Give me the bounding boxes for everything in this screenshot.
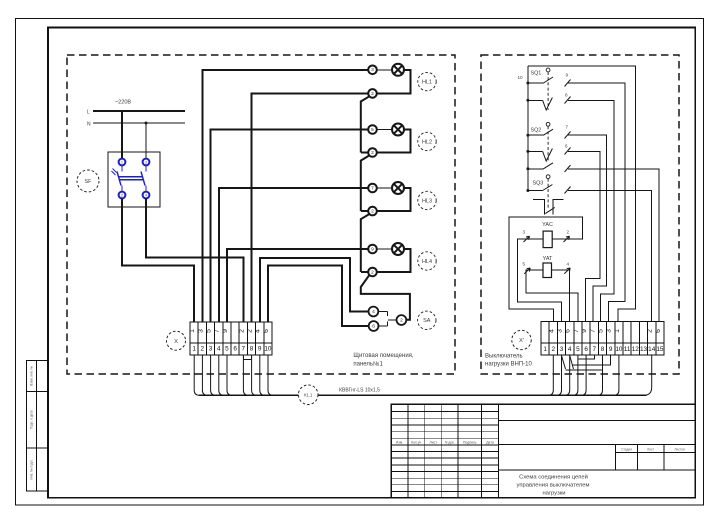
svg-text:Листов: Листов xyxy=(674,447,685,451)
connector node 9 (HL4 feed) xyxy=(368,245,377,254)
contact SQ1.1 xyxy=(528,77,571,87)
connector node 2 (SA common) xyxy=(397,315,407,325)
svg-text:7: 7 xyxy=(589,329,596,333)
contact SQ1.2 xyxy=(528,97,571,111)
svg-text:7: 7 xyxy=(593,346,597,353)
svg-text:Инв. № подл.: Инв. № подл. xyxy=(29,459,33,479)
terminal strip X wire numbers (rotated) xyxy=(189,329,270,333)
svg-text:N док.: N док. xyxy=(445,440,455,444)
contact SQ3.2 xyxy=(528,185,571,194)
wire cable core right 3 xyxy=(565,355,570,395)
drawing title text xyxy=(516,473,589,496)
coil YAT body xyxy=(543,263,552,278)
node bus SQ3.2 xyxy=(526,189,529,192)
svg-text:5: 5 xyxy=(598,329,605,333)
jumper X2:8-X2:3 xyxy=(565,355,602,370)
plug arrow YAC pin3 xyxy=(524,236,530,242)
node N junction xyxy=(145,122,148,125)
wire cable core right 7 xyxy=(614,355,619,395)
svg-text:13: 13 xyxy=(640,346,648,353)
svg-text:SQ3: SQ3 xyxy=(533,181,544,187)
wire N chain below HL4 xyxy=(361,275,410,320)
wire SQ2.2 to X2:6 xyxy=(568,151,600,321)
svg-text:SQ2: SQ2 xyxy=(531,127,542,133)
wire lamp HL3 down link xyxy=(377,188,411,211)
label: Щитовая помещения панель№1 xyxy=(353,353,414,368)
svg-text:9: 9 xyxy=(222,329,229,333)
svg-text:6: 6 xyxy=(263,329,270,333)
wire 2: YAC to X2:2 xyxy=(509,217,583,321)
svg-text:HL1: HL1 xyxy=(422,79,432,85)
svg-text:YAT: YAT xyxy=(543,256,553,262)
stage/sheet columns xyxy=(615,444,695,470)
wire cable core left 8 xyxy=(260,355,265,395)
designator circle X xyxy=(167,331,186,350)
svg-text:11: 11 xyxy=(624,346,631,353)
svg-text:Подп. и дата: Подп. и дата xyxy=(29,410,33,429)
svg-text:3: 3 xyxy=(523,230,526,235)
svg-text:2: 2 xyxy=(371,269,374,275)
wire 5: X:3 to HL2 xyxy=(211,130,369,323)
svg-text:14: 14 xyxy=(648,346,656,353)
wire 3: YAC to X2:3 xyxy=(517,239,561,322)
wire lamp HL4 down link xyxy=(377,249,411,272)
svg-text:4: 4 xyxy=(217,346,221,353)
title block left grid rows xyxy=(391,412,498,492)
svg-text:9: 9 xyxy=(609,346,613,353)
connector node 2 (HL4 return) xyxy=(368,268,377,277)
svg-text:5: 5 xyxy=(225,346,229,353)
connector node 5 (HL2 feed) xyxy=(368,125,377,134)
terminal strip X terminal numbers xyxy=(192,346,272,353)
wire connector to lamp HL4 xyxy=(377,248,392,250)
svg-text:6: 6 xyxy=(372,324,375,330)
wire cable core left 1 xyxy=(194,355,199,395)
designator circle HL3 xyxy=(418,191,436,209)
lamp HL4 xyxy=(392,243,404,255)
svg-text:10: 10 xyxy=(264,346,272,353)
svg-text:HL3: HL3 xyxy=(422,198,432,204)
lamp HL1 xyxy=(392,64,404,76)
svg-text:1: 1 xyxy=(189,329,196,333)
svg-text:1: 1 xyxy=(121,160,123,164)
wire return stub HL3 xyxy=(361,210,368,212)
svg-text:1: 1 xyxy=(543,346,547,353)
breaker SF designator circle xyxy=(77,170,99,192)
limit switch SQ1 link xyxy=(547,72,549,110)
svg-text:L: L xyxy=(87,110,90,116)
svg-text:2: 2 xyxy=(201,346,205,353)
wire SQ1.2 to X2:8 xyxy=(568,100,614,321)
svg-text:2: 2 xyxy=(238,329,245,333)
wire SQ2.1 to X2:7 xyxy=(568,135,607,321)
svg-text:X: X xyxy=(174,339,178,345)
connector node 6 (SA bottom) xyxy=(369,321,379,331)
svg-text:Щитовая помещения,: Щитовая помещения, xyxy=(353,353,414,359)
svg-text:3: 3 xyxy=(557,329,564,333)
svg-text:2: 2 xyxy=(371,150,374,156)
drive latch contact xyxy=(533,200,563,215)
wire N drop to SF xyxy=(145,123,147,158)
designator circle X' xyxy=(512,330,531,349)
wire bus top to X2:10 xyxy=(528,66,636,322)
svg-text:15: 15 xyxy=(656,346,664,353)
svg-text:10: 10 xyxy=(518,75,524,80)
dashed enclosure: load switch xyxy=(481,55,679,374)
wire L drop to SF xyxy=(121,111,123,158)
wire return stub HL4 xyxy=(361,271,368,273)
terminal strip X2 xyxy=(541,322,664,355)
svg-text:4: 4 xyxy=(255,329,262,333)
svg-text:3: 3 xyxy=(606,329,613,333)
terminal strip X2 wire numbers (rotated) xyxy=(548,329,662,333)
svg-text:панель№1: панель№1 xyxy=(353,361,383,368)
label: Выключатель нагрузки ВНП-10 xyxy=(485,354,532,368)
breaker SF body box xyxy=(108,152,160,207)
wire 7: X:4 to HL3 xyxy=(219,188,368,322)
svg-text:нагрузки ВНП-10: нагрузки ВНП-10 xyxy=(485,362,532,368)
svg-text:3: 3 xyxy=(371,67,374,73)
svg-text:Стадия: Стадия xyxy=(621,447,632,451)
svg-text:Взам. инв. №: Взам. инв. № xyxy=(29,366,33,386)
svg-text:5: 5 xyxy=(523,262,526,267)
svg-text:КВВГнг-LS 10х1,5: КВВГнг-LS 10х1,5 xyxy=(339,388,380,394)
wire cable core left 6 xyxy=(243,355,248,395)
designator circle HL1 xyxy=(418,72,436,90)
wire cable core right 5 xyxy=(581,355,586,395)
contact SQ3.1 xyxy=(528,163,571,172)
svg-text:~220В: ~220В xyxy=(115,100,132,106)
connector node 2 (HL3 return) xyxy=(368,207,377,216)
svg-text:SA: SA xyxy=(423,318,431,324)
title block left grid columns xyxy=(408,404,499,498)
left margin rotated labels xyxy=(29,366,33,480)
svg-text:нагрузки: нагрузки xyxy=(542,490,565,496)
svg-text:2: 2 xyxy=(400,318,403,324)
limit switch SQ2 pivot xyxy=(546,122,550,126)
svg-text:8: 8 xyxy=(250,346,254,353)
svg-text:3: 3 xyxy=(197,329,204,333)
wire 9: X:5 to HL4 xyxy=(227,249,368,322)
coil YAC body xyxy=(543,231,552,248)
dashed enclosure: panel room xyxy=(67,55,455,374)
svg-text:YAC: YAC xyxy=(542,222,553,228)
wire cable core right 4 xyxy=(573,355,578,395)
node bus SQ2.2 xyxy=(526,150,529,153)
jumper X2:4 diagonal xyxy=(570,356,574,370)
connector node 2 (HL1 return) xyxy=(368,89,377,98)
wire return stub HL2 xyxy=(361,152,368,154)
wire lamp HL2 down link xyxy=(377,130,411,153)
svg-text:Выключатель: Выключатель xyxy=(485,354,523,360)
limit switch SQ3 pivot xyxy=(546,175,550,179)
connector node 7 (HL3 feed) xyxy=(368,184,377,193)
svg-text:1: 1 xyxy=(614,329,621,333)
svg-text:5: 5 xyxy=(206,329,213,333)
wire N chain below HL2 xyxy=(361,155,370,211)
svg-text:6: 6 xyxy=(655,329,662,333)
switch SA contacts xyxy=(378,312,396,327)
wire 2: X:8 to HL1 return xyxy=(252,93,369,322)
title block right rows xyxy=(499,420,696,470)
connector node 2 (HL2 return) xyxy=(368,148,377,157)
wire N bus xyxy=(93,122,185,124)
svg-text:8: 8 xyxy=(601,346,605,353)
wire SQ1.1 to X2:9 xyxy=(568,83,625,322)
svg-text:управления выключателем: управления выключателем xyxy=(516,483,589,489)
wire 4: YAT to X2:4 xyxy=(552,270,570,322)
wire N chain below HL1 xyxy=(361,96,370,152)
svg-text:6: 6 xyxy=(584,346,588,353)
wire L bus xyxy=(93,110,185,112)
svg-text:9: 9 xyxy=(581,329,588,333)
svg-text:4: 4 xyxy=(548,329,555,333)
wire cable core left 7 xyxy=(252,355,257,395)
svg-text:Схема соединения цепей: Схема соединения цепей xyxy=(519,473,588,480)
svg-text:6: 6 xyxy=(233,346,237,353)
wire cable core right 1 xyxy=(548,355,553,395)
svg-text:10: 10 xyxy=(615,346,623,353)
connector node 3 (HL1 feed) xyxy=(368,66,377,75)
svg-text:7: 7 xyxy=(566,125,569,130)
svg-text:5: 5 xyxy=(371,127,374,133)
svg-text:2: 2 xyxy=(247,329,254,333)
wire 6: X:10 to SA xyxy=(268,266,369,326)
terminal strip X xyxy=(190,322,272,355)
limit switch SQ1 pivot xyxy=(546,68,550,72)
stage/sheet labels xyxy=(621,447,685,451)
svg-text:9: 9 xyxy=(566,73,569,78)
svg-text:8: 8 xyxy=(565,93,568,98)
jumper X2:7-X2:5 xyxy=(578,355,594,359)
limit switch SQ2 link xyxy=(547,126,549,161)
svg-text:3: 3 xyxy=(209,346,213,353)
svg-text:7: 7 xyxy=(242,346,246,353)
wire cable core left 9 xyxy=(268,355,273,395)
wire cable core left 3 xyxy=(211,355,216,395)
svg-text:Подпись: Подпись xyxy=(463,440,477,444)
plug arrow YAT pin5 xyxy=(524,268,530,274)
wire cable core left 4 xyxy=(219,355,224,395)
limit switch SQ3 link xyxy=(547,179,549,209)
designator circle SA xyxy=(418,311,436,329)
svg-text:4: 4 xyxy=(145,193,147,197)
node bus SQ3.1 xyxy=(526,167,529,170)
lamp HL2 xyxy=(392,124,404,136)
plug arrow YAT pin4 xyxy=(564,268,570,274)
left margin stamp table xyxy=(27,360,49,491)
svg-text:N: N xyxy=(87,122,91,128)
designator circle HL4 xyxy=(418,252,436,270)
wire 5: YAT to X2:5 xyxy=(526,270,578,322)
svg-text:HL4: HL4 xyxy=(422,259,432,265)
title block outer xyxy=(391,404,695,498)
svg-text:Лист: Лист xyxy=(647,447,654,451)
wire cable core right 6 xyxy=(598,355,603,395)
jumper X2:9-X2:4 xyxy=(572,355,611,365)
node bus SQ1.1 xyxy=(526,82,529,85)
breaker SF symbol (blue) xyxy=(112,159,150,199)
svg-text:2: 2 xyxy=(567,230,570,235)
svg-text:2: 2 xyxy=(371,209,374,215)
wire cable core left 5 xyxy=(227,355,232,395)
svg-text:К1.1: К1.1 xyxy=(304,392,313,397)
svg-text:3: 3 xyxy=(145,160,147,164)
wire connector to lamp HL3 xyxy=(377,187,392,189)
cable marker circle К1.1 xyxy=(298,385,318,405)
svg-text:2: 2 xyxy=(552,346,556,353)
wire SQ3.1 to X2:15 xyxy=(568,169,659,322)
svg-text:6: 6 xyxy=(565,144,568,149)
jumper X2:3 diagonal xyxy=(562,356,566,370)
wire 4: X:9 to SA xyxy=(260,258,369,322)
svg-text:9: 9 xyxy=(371,246,374,252)
wire lamp HL1 down link xyxy=(377,70,411,94)
svg-text:7: 7 xyxy=(371,185,374,191)
node bus SQ1.2 xyxy=(526,99,529,102)
cable trunk left xyxy=(199,394,298,396)
svg-text:4: 4 xyxy=(568,346,572,353)
wire left bus of SQ contacts xyxy=(527,66,529,191)
svg-text:7: 7 xyxy=(214,329,221,333)
svg-text:6: 6 xyxy=(565,329,572,333)
wire connector to lamp HL1 xyxy=(377,69,392,71)
svg-text:HL2: HL2 xyxy=(422,139,432,145)
wire N chain below HL3 xyxy=(361,214,370,272)
connector node 4 (SA top) xyxy=(369,307,379,317)
svg-text:SF: SF xyxy=(85,179,93,185)
svg-text:1: 1 xyxy=(192,346,196,353)
svg-text:2: 2 xyxy=(647,329,654,333)
cable trunk right xyxy=(318,394,646,396)
svg-text:7: 7 xyxy=(573,329,580,333)
svg-text:4: 4 xyxy=(372,309,375,315)
wire cable core right 8 xyxy=(644,355,652,395)
node bus SQ2.1 xyxy=(526,134,529,137)
wire 3: X:2 to HL1 xyxy=(202,70,368,322)
plug arrow YAC pin2 xyxy=(564,236,570,242)
contact SQ2.2 xyxy=(528,148,571,162)
jumper X:7-X:8 xyxy=(243,355,251,360)
svg-text:3: 3 xyxy=(560,346,564,353)
svg-text:Лист: Лист xyxy=(430,440,438,444)
svg-text:5: 5 xyxy=(576,346,580,353)
svg-text:SQ1: SQ1 xyxy=(531,71,542,77)
wire cable core left 2 xyxy=(202,355,207,395)
wire L: SF to terminal X:1 xyxy=(122,198,194,322)
terminal strip X2 terminal numbers xyxy=(543,346,664,353)
svg-text:Кол.уч: Кол.уч xyxy=(411,440,421,444)
lamp HL3 xyxy=(392,182,404,194)
svg-text:9: 9 xyxy=(258,346,262,353)
wire N: SF to terminal X:7 xyxy=(146,198,243,322)
wire connector to lamp HL2 xyxy=(377,129,392,131)
contact SQ2.1 xyxy=(528,129,571,138)
designator circle HL2 xyxy=(418,132,436,150)
svg-text:Дата: Дата xyxy=(486,440,494,444)
svg-text:Изм.: Изм. xyxy=(396,440,403,444)
svg-text:2: 2 xyxy=(121,193,123,197)
svg-text:12: 12 xyxy=(632,346,640,353)
svg-text:4: 4 xyxy=(567,262,570,267)
wire SQ3.2 to X2:14 xyxy=(568,191,651,322)
svg-text:X': X' xyxy=(519,338,524,344)
svg-text:2: 2 xyxy=(371,91,374,97)
wire cable core right 2 xyxy=(557,355,562,395)
title block header labels xyxy=(396,440,494,444)
